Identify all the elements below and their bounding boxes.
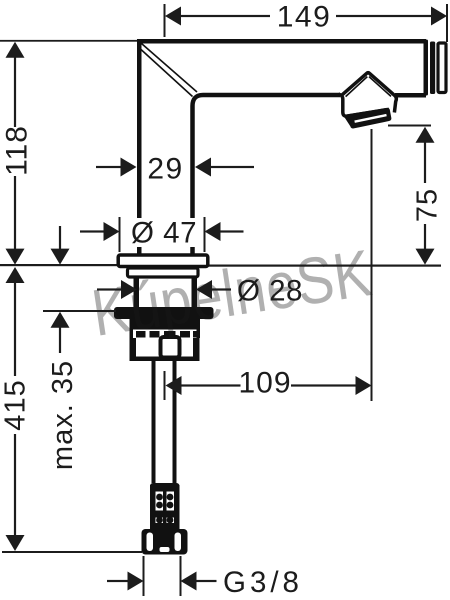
svg-text:118: 118	[0, 125, 33, 176]
nozzle body fill	[340, 72, 397, 121]
svg-text:109: 109	[238, 367, 291, 400]
nut band B	[130, 318, 201, 330]
dimension 109	[166, 376, 182, 395]
lower mounting box walls	[130, 338, 137, 360]
dimension 149 line right segment	[431, 7, 447, 26]
dimension 149 line left segment	[165, 7, 181, 26]
extension line nozzle centre vertical	[371, 129, 373, 401]
svg-text:Ø 47: Ø 47	[131, 217, 197, 250]
dimension max.35 upper arrow	[59, 226, 61, 250]
svg-text:G3/8: G3/8	[223, 566, 303, 599]
aerator black mass	[344, 108, 392, 129]
max.35 tick line	[43, 310, 116, 312]
nozzle left wall and sloped underside	[339, 94, 390, 116]
nozzle right wall and conical top	[341, 73, 396, 113]
riser pipe right wall	[173, 361, 177, 483]
G3/8 extension lines	[143, 556, 145, 596]
aerator white slit	[355, 115, 387, 122]
spout end cap ring B	[438, 43, 446, 93]
extension line 149 left	[164, 4, 166, 37]
faucet body left wall	[137, 39, 142, 255]
spout end cap ring A	[430, 42, 435, 95]
extension line 149/spout right	[446, 4, 448, 42]
chamfer highlight lines	[142, 44, 198, 93]
extension line nozzle outlet right	[388, 125, 431, 127]
deck line right	[207, 265, 441, 267]
dimension 118 vertical	[6, 42, 25, 58]
nozzle cone shading lines	[344, 75, 367, 94]
dimension max.35 lower arrow	[51, 312, 70, 328]
hose nut	[142, 529, 188, 555]
svg-text:149: 149	[277, 1, 332, 34]
locking nut band A	[114, 307, 214, 319]
faucet body right wall + inner corner to spout underside	[193, 95, 341, 255]
spout body right end edge	[424, 40, 429, 96]
extension line top-left (118 ref)	[0, 40, 137, 42]
svg-text:415: 415	[0, 379, 32, 430]
dimension Ø28	[97, 288, 123, 290]
dimension 109 centre tick	[164, 371, 166, 400]
serrated collar band	[130, 330, 201, 339]
dimension text Ø47 (white bg)	[130, 218, 198, 247]
central fixing tab	[161, 337, 180, 358]
dimension Ø47	[80, 230, 105, 232]
escutcheon skirt	[128, 268, 199, 277]
svg-text:29: 29	[147, 153, 183, 186]
hose braided section	[150, 483, 180, 530]
svg-text:max. 35: max. 35	[47, 360, 79, 470]
riser pipe left wall	[152, 361, 156, 483]
deck line left	[0, 264, 118, 266]
bottom band of mounting box	[130, 357, 200, 362]
dimension 75	[416, 127, 435, 143]
escutcheon plate	[118, 255, 208, 267]
svg-text:75: 75	[412, 188, 444, 222]
dimension 29	[96, 166, 122, 168]
dimension 415	[6, 267, 25, 283]
dimension G3/8	[107, 580, 128, 582]
faucet top edge	[137, 39, 426, 44]
extension line hose bottom left	[2, 551, 142, 553]
Ø28 cylinder walls	[134, 278, 140, 310]
spout underside right of nozzle	[395, 93, 426, 98]
